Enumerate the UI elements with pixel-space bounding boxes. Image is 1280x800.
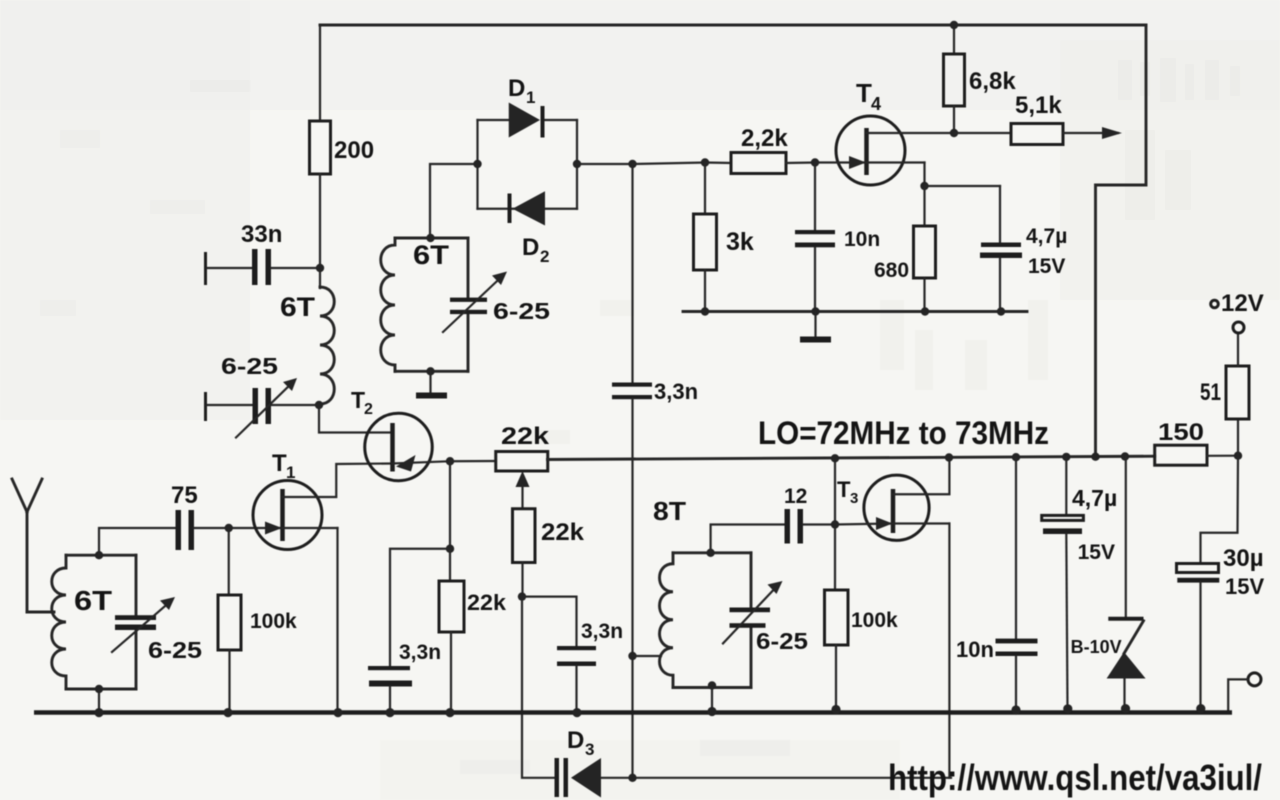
wire top rail right feed down <box>1096 25 1147 457</box>
wire gate node up to LO line <box>834 458 836 524</box>
svg-text:D: D <box>508 75 525 102</box>
node 3k branch <box>701 158 709 166</box>
svg-text:200: 200 <box>334 137 374 164</box>
resistor 100k T1 <box>218 528 297 713</box>
svg-text:15V: 15V <box>1028 255 1065 278</box>
svg-text:75: 75 <box>171 482 198 509</box>
svg-text:15V: 15V <box>1225 574 1264 599</box>
svg-text:6-25: 6-25 <box>221 353 278 379</box>
svg-text:D: D <box>567 727 584 754</box>
svg-text:T: T <box>837 477 851 502</box>
resistor 5,1k with output arrow <box>954 92 1122 145</box>
node rail 3,3n mid <box>572 708 581 717</box>
wire T2 source down <box>449 461 451 549</box>
transistor T1 <box>253 450 393 713</box>
resistor 200 <box>310 121 331 174</box>
svg-text:22k: 22k <box>467 590 507 615</box>
svg-text:51: 51 <box>1200 379 1221 406</box>
node rail 100k T3 <box>831 705 840 714</box>
svg-text:1: 1 <box>286 463 295 482</box>
svg-text:6T: 6T <box>280 292 316 322</box>
svg-text:5,1k: 5,1k <box>1015 92 1062 119</box>
node LO zener <box>1121 452 1129 460</box>
node LO 4,7u <box>1062 453 1070 461</box>
node LO T3 drain <box>945 453 953 461</box>
svg-text:3,3n: 3,3n <box>399 641 441 664</box>
resistor 22k source <box>439 549 507 713</box>
node 100k T1 branch <box>225 524 233 532</box>
node LO T3 gate branch <box>831 454 839 462</box>
node 8T bottom <box>708 681 716 689</box>
node 3,3n branch <box>628 160 636 168</box>
node rail 22k <box>445 708 454 717</box>
svg-text:4: 4 <box>871 94 881 114</box>
zener B-10V <box>1071 457 1146 709</box>
node rail 30u <box>1196 704 1205 713</box>
svg-text:15V: 15V <box>1078 541 1115 564</box>
transistor T3 <box>835 458 949 778</box>
wire T4 ground bus <box>683 310 1027 313</box>
svg-text:2,2k: 2,2k <box>741 125 788 152</box>
resistor 3k <box>694 163 754 312</box>
oscillator tank 8T <box>653 496 751 688</box>
svg-text:3k: 3k <box>726 228 754 256</box>
capacitor 6-25 trimmer left <box>204 353 319 438</box>
capacitor 75 <box>171 482 283 550</box>
wire right node to 3,3n node <box>577 163 633 165</box>
svg-text:6T: 6T <box>74 585 112 616</box>
node bus 680 <box>921 307 929 315</box>
oscillator tank 6T <box>381 238 468 371</box>
wire branch to 3,3n mid <box>522 597 577 646</box>
svg-text:B-10V: B-10V <box>1071 637 1122 657</box>
svg-text:4,7µ: 4,7µ <box>1026 225 1067 248</box>
varactor D3 <box>555 727 952 798</box>
capacitor 3,3n osc line <box>612 164 698 778</box>
node T3 gate <box>831 520 839 528</box>
wire branch to 3,3n left <box>390 549 450 666</box>
node rail 10n <box>1011 705 1020 714</box>
diode pair frame wires <box>478 120 578 209</box>
svg-text:T: T <box>351 387 365 413</box>
wire LO line <box>548 456 1155 459</box>
node drain 6,8k <box>950 129 958 137</box>
node rail 3,3n T2 <box>385 708 394 717</box>
ground osc tank <box>416 371 447 395</box>
svg-text:33n: 33n <box>241 221 282 248</box>
svg-text:22k: 22k <box>501 423 550 450</box>
svg-text:6-25: 6-25 <box>148 637 202 663</box>
node bus 3k <box>701 307 709 315</box>
svg-text:D: D <box>522 234 539 261</box>
capacitor 3,3n varactor filter <box>557 620 623 713</box>
wire tap to 8T coil <box>633 655 662 657</box>
wire T4 source to 4,7u <box>925 185 1001 187</box>
capacitor 12 <box>784 485 835 544</box>
wire 8T bottom to rail <box>711 688 713 712</box>
node 150 right <box>1234 452 1242 460</box>
node ant tank bottom <box>95 685 103 693</box>
node D1D2 right <box>573 160 581 168</box>
node osc tank bottom <box>426 367 434 375</box>
resistor 680 <box>874 186 936 312</box>
node ant tank top <box>95 551 103 559</box>
svg-text:T: T <box>272 450 287 477</box>
node osc tank top <box>426 234 434 242</box>
svg-text:4,7µ: 4,7µ <box>1072 485 1117 511</box>
node rail 4,7u <box>1063 704 1072 713</box>
svg-text:http://www.qsl.net/va3iul/: http://www.qsl.net/va3iul/ <box>888 757 1262 798</box>
svg-text:30µ: 30µ <box>1223 545 1264 572</box>
svg-text:12: 12 <box>784 485 807 508</box>
node rail T1 source <box>333 708 342 717</box>
svg-text:100k: 100k <box>250 610 297 633</box>
resistor 2,2k <box>705 125 815 174</box>
resistor 6,8k <box>944 25 1017 133</box>
capacitor 4,7u T4 <box>980 186 1067 312</box>
capacitor 6-25 osc trimmer <box>443 272 550 333</box>
resistor 150 <box>1155 419 1238 465</box>
node T4 source <box>920 182 928 190</box>
svg-text:LO=72MHz to 73MHz: LO=72MHz to 73MHz <box>758 415 1049 451</box>
node D3 osc line <box>628 774 636 782</box>
svg-text:100k: 100k <box>851 609 898 632</box>
node bus 4,7u <box>997 307 1005 315</box>
node rail 100k T1 <box>223 708 232 717</box>
node 22k bottom <box>518 592 526 600</box>
svg-text:3,3n: 3,3n <box>654 379 698 404</box>
svg-text:3: 3 <box>850 490 858 507</box>
svg-text:2: 2 <box>364 401 373 418</box>
wire to 3k node <box>633 163 706 165</box>
svg-text:10n: 10n <box>956 637 994 662</box>
diode D1 <box>508 75 545 138</box>
node bus 10n <box>811 307 819 315</box>
svg-text:2: 2 <box>540 247 549 266</box>
resistor 22k wiper <box>513 509 585 597</box>
svg-text:150: 150 <box>1158 419 1204 446</box>
capacitor 10n right <box>956 457 1038 710</box>
potentiometer 22k <box>450 423 550 509</box>
svg-text:3: 3 <box>585 740 594 759</box>
node 8T top <box>706 549 714 557</box>
resistor 51 <box>1200 333 1249 456</box>
node 33n junction <box>316 264 324 272</box>
capacitor 4,7u right <box>1042 457 1118 709</box>
terminal output <box>1228 673 1261 711</box>
node D1D2 left <box>473 160 481 168</box>
capacitor 6-25 antenna trimmer <box>112 597 202 663</box>
antenna <box>12 479 54 612</box>
svg-text:6-25: 6-25 <box>493 298 550 324</box>
ground T4 bus <box>800 312 831 340</box>
svg-text:3,3n: 3,3n <box>581 620 623 643</box>
svg-text:10n: 10n <box>844 228 880 251</box>
antenna tank 6T <box>52 555 136 689</box>
node rail zener <box>1121 704 1130 713</box>
wire 22k node down to D3 <box>522 597 555 778</box>
svg-text:T: T <box>856 78 872 108</box>
wire top rail to R200 <box>319 25 321 121</box>
wire ground rail <box>34 710 1232 715</box>
terminal +12V <box>1211 290 1264 333</box>
svg-text:1: 1 <box>526 88 535 107</box>
svg-text:12V: 12V <box>1221 290 1264 317</box>
svg-text:6-25: 6-25 <box>756 628 808 654</box>
node 8T tap <box>628 652 636 660</box>
capacitor 6-25 osc2 trimmer <box>723 581 808 654</box>
node 10n branch <box>811 158 819 166</box>
transistor T2 <box>351 387 450 481</box>
wire ant tank bottom to rail <box>98 689 100 713</box>
wire R200 to node <box>319 174 321 288</box>
node coil bottom junction <box>315 401 323 409</box>
node LO feed <box>1091 453 1099 461</box>
resistor 100k T3 <box>825 525 899 710</box>
capacitor 30u <box>1177 456 1265 709</box>
capacitor 3,3n T2 <box>368 641 441 713</box>
capacitor 10n T4 <box>795 163 880 312</box>
svg-text:6T: 6T <box>413 240 450 270</box>
transistor T4 <box>815 78 954 186</box>
node rail 8T <box>707 707 716 716</box>
inductor 6T series <box>320 287 334 404</box>
node T2 source <box>446 457 454 465</box>
wire D1D2 left node to osc tank <box>430 164 478 238</box>
svg-text:680: 680 <box>874 259 909 282</box>
wire ant tank top to 75 <box>99 528 176 555</box>
node rail ant tank <box>94 708 103 717</box>
svg-text:6,8k: 6,8k <box>969 68 1016 95</box>
capacitor 33n <box>204 221 320 285</box>
node top rail 6,8k <box>950 21 958 29</box>
node 22k top <box>446 545 454 553</box>
svg-text:8T: 8T <box>653 496 686 526</box>
svg-text:22k: 22k <box>541 519 585 546</box>
diode D2 <box>508 191 550 266</box>
wire coil junction to T2 gate <box>319 405 393 433</box>
node LO 10n <box>1012 453 1020 461</box>
wire top rail <box>320 24 1146 27</box>
wire 8T top to 12 cap <box>711 525 785 553</box>
